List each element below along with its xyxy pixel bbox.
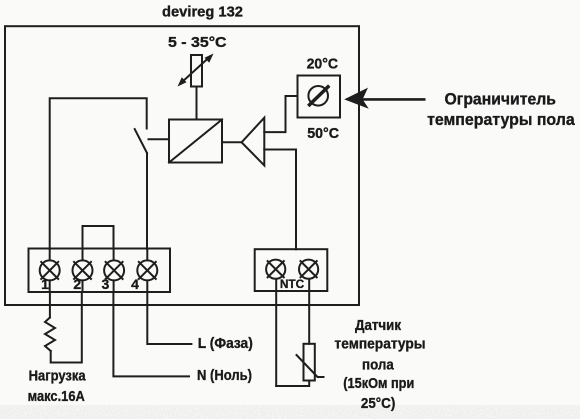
svg-text:L (Фаза): L (Фаза) [198,335,253,352]
svg-text:макс.16А: макс.16А [28,388,85,405]
arrow: limiter pointer [344,88,425,109]
resistor: heating load (zigzag) [45,318,55,352]
switch S1 blade (relay contact) [135,129,147,153]
comparator A1 (triangle) [242,118,265,166]
wire: terminal 4 to mains L [147,292,191,344]
wire: control unit drive stub to switch [149,138,170,140]
svg-text:(15кОм при: (15кОм при [343,375,414,392]
wire: comparator to floor-limit trimmer [264,96,297,132]
wire: control unit to comparator [222,141,242,143]
wire: terminal 1 down to load resistor [49,292,51,318]
wire: terminal 3 to mains N [113,292,189,376]
svg-text:N (Ноль): N (Ноль) [197,367,252,384]
terminal 2 [73,249,93,293]
control unit U1 (crossed box) [169,120,222,163]
svg-text:Нагрузка: Нагрузка [29,368,87,385]
jumper wire: terminal 2 to terminal 3 [83,226,114,249]
svg-text:5 - 35°C: 5 - 35°C [168,34,227,51]
wire: RV1 to control unit [196,87,198,120]
terminal 4 [137,249,157,293]
terminal block X1: mains and load terminals [29,249,171,293]
svg-text:NTC: NTC [280,277,305,291]
wire: NTC right terminal down to thermistor [308,291,310,344]
thermistor RT1: floor sensor [297,344,324,381]
trimmer RV2: floor temperature limiter 20-50C [298,76,341,118]
svg-text:20°C: 20°C [307,55,339,72]
terminal NTC right [299,260,318,291]
label: Nagruzka maks.16A [28,368,87,406]
svg-text:3: 3 [102,276,110,292]
svg-text:пола: пола [362,357,394,374]
svg-text:devireg 132: devireg 132 [162,3,243,20]
enclosure: thermostat housing outline [5,26,359,305]
svg-text:температуры: температуры [335,336,426,353]
wire: load resistor to terminal 2 [51,292,82,363]
wire: switch blade to terminal 4 [146,153,148,249]
wire: terminal 1 up and over to switch fixed contact [50,98,147,249]
label: Datchik temperatury pola (15kOm pri 25C) [335,317,426,412]
label: Ogranichitel temperatury pola [427,90,575,130]
svg-text:50°C: 50°C [307,125,339,142]
potentiometer RV1: room setpoint 5-35C [178,54,214,87]
svg-text:2: 2 [73,276,81,292]
svg-text:Датчик: Датчик [355,317,401,334]
svg-text:4: 4 [131,276,139,292]
terminal block X2: sensor terminals [255,249,328,291]
wire: NTC left terminal down to sensor loop [275,291,277,386]
wire: comparator to NTC sensor terminal [264,150,296,250]
svg-text:25°C): 25°C) [361,395,395,412]
wire: thermistor to sensor loop bottom [276,381,309,387]
terminal 3 [104,249,124,293]
terminal 1 [40,249,60,293]
svg-text:1: 1 [41,276,49,292]
svg-text:Ограничитель: Ограничитель [445,90,556,109]
terminal NTC left [266,260,285,291]
svg-text:температуры пола: температуры пола [427,110,575,129]
